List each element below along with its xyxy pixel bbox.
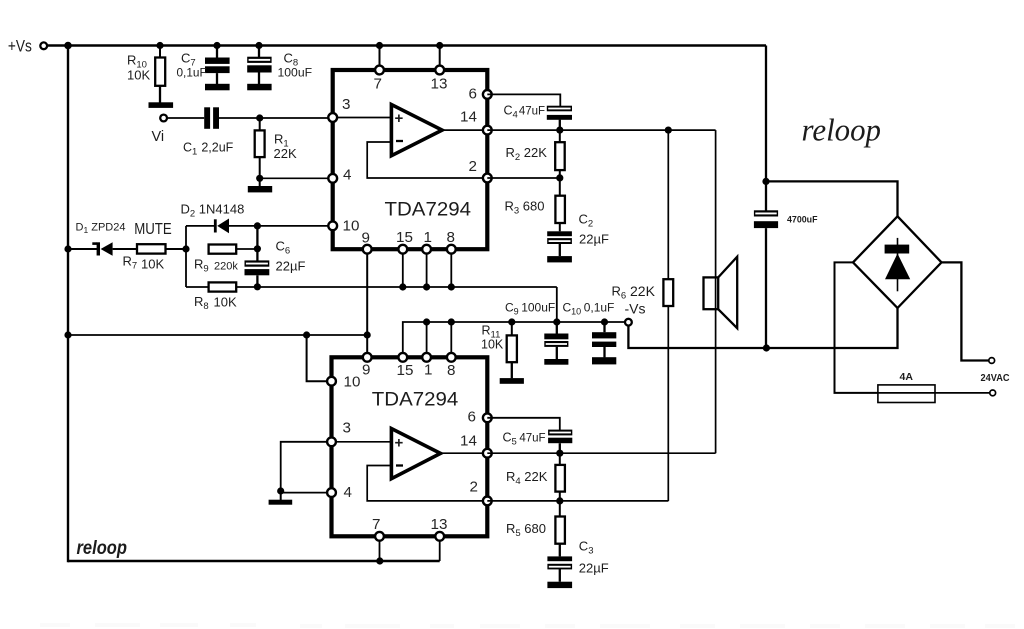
capacitor C4 — [547, 106, 572, 112]
svg-text:Vi: Vi — [152, 129, 165, 145]
op-amp U1 triangle — [391, 105, 442, 156]
svg-text:4A: 4A — [900, 371, 914, 383]
svg-text:-Vs: -Vs — [625, 301, 646, 317]
node junction R2/R3 — [556, 174, 563, 181]
svg-text:4: 4 — [343, 167, 351, 184]
node junction C4/R2 — [556, 127, 563, 134]
svg-text:15: 15 — [396, 229, 413, 246]
svg-text:6: 6 — [469, 86, 477, 103]
pin 2 — [483, 174, 492, 183]
svg-text:3: 3 — [342, 96, 350, 113]
speaker — [704, 277, 719, 309]
capacitor C8 — [255, 42, 262, 49]
capacitor C3 — [547, 556, 572, 561]
node junction pin7 bottom — [376, 557, 383, 564]
wire R8 to -Vs bus — [236, 286, 557, 288]
op-amp U2 triangle — [391, 429, 440, 479]
svg-text:15: 15 — [397, 362, 414, 379]
capacitor C5 — [548, 430, 572, 436]
wire vertical junction branch — [185, 226, 187, 287]
wire pin 14 U2 output line — [487, 452, 715, 454]
ground under C10 — [592, 357, 616, 364]
pin 15 U2 — [398, 353, 407, 362]
capacitor C7 — [213, 42, 220, 49]
svg-text:reloop: reloop — [802, 113, 882, 148]
node junction left rail / mute line — [64, 245, 71, 252]
wire pin 6 to C4 — [487, 94, 560, 106]
node junction ground pin3/4 U2 — [277, 487, 284, 494]
resistor R9 — [209, 245, 237, 254]
wire pin3 U2 to ground branch — [281, 442, 332, 491]
diode D2 1N4148 — [214, 219, 217, 232]
node junction pin1 lead — [423, 283, 430, 290]
svg-text:+: + — [395, 435, 404, 452]
wire R7 to junction — [166, 248, 187, 250]
terminal 24VAC upper — [989, 358, 995, 364]
wire to bridge top — [766, 181, 898, 216]
wire R9 to C6 junction — [236, 248, 257, 250]
ground under C7 — [205, 84, 230, 91]
node junction +Vs rail / left rail — [64, 42, 72, 50]
pin 6 — [483, 90, 492, 99]
node junction pin15 lead — [399, 283, 406, 290]
wire D1 to R7 — [113, 248, 137, 250]
diode D1 ZPD24 zener — [92, 242, 97, 245]
resistor R5 — [559, 501, 561, 517]
svg-text:TDA7294: TDA7294 — [385, 199, 472, 221]
svg-text:220k: 220k — [214, 261, 238, 273]
capacitor 4700uF — [754, 210, 778, 216]
node junction D2 / C6 top branch — [254, 222, 261, 229]
wire pin15 lead down — [402, 249, 404, 287]
pin 10 — [328, 221, 337, 230]
pin 13 U2 — [435, 532, 444, 541]
svg-text:22µF: 22µF — [276, 259, 306, 274]
svg-text:3: 3 — [343, 420, 351, 437]
wire bottom reloop line — [68, 560, 440, 562]
svg-text:D1 ZPD24: D1 ZPD24 — [76, 222, 126, 236]
wire bridge bottom to -Vs line — [628, 308, 897, 348]
wire pin1 lead up U2 — [426, 322, 428, 357]
wire pin 13 U2 lead down — [439, 536, 441, 561]
wire branch to pin 10 of U2 — [307, 335, 332, 381]
node junction R1 top — [256, 114, 263, 121]
svg-text:22µF: 22µF — [579, 561, 609, 576]
ground under pin4 branch — [280, 491, 282, 500]
node junction mute — [182, 245, 189, 252]
resistor R2 — [559, 130, 561, 142]
bridge diode — [897, 238, 899, 291]
node junction left rail / reloop line — [64, 331, 71, 338]
node junction R1 bottom — [256, 175, 263, 182]
pin 8 — [447, 245, 456, 254]
resistor R8 — [209, 282, 237, 291]
svg-text:10K: 10K — [141, 257, 164, 272]
svg-text:10K: 10K — [481, 338, 504, 352]
terminal +Vs — [40, 42, 47, 49]
svg-text:2: 2 — [469, 158, 477, 175]
pin 3 — [328, 113, 337, 122]
wire pin3 to op-amp input — [333, 117, 392, 119]
wire junction to pin 4 U2 — [281, 491, 332, 493]
pin 1 U2 — [422, 353, 431, 362]
wire -Vs bus line — [403, 322, 625, 357]
svg-text:4700uF: 4700uF — [787, 215, 818, 225]
pin 14 U2 — [483, 449, 492, 458]
wire R8 line left — [186, 286, 209, 288]
svg-text:9: 9 — [362, 230, 370, 247]
pin 15 — [398, 245, 407, 254]
svg-text:10: 10 — [344, 374, 361, 391]
ground under C9 — [544, 359, 568, 365]
svg-text:9: 9 — [362, 362, 370, 379]
pin 3 U2 — [327, 437, 336, 446]
wire pin3 to op-amp input U2 — [332, 441, 392, 443]
wire pin 2 line — [487, 177, 560, 179]
svg-text:22K: 22K — [630, 283, 656, 299]
wire pin9 vertical IC1 to IC2 — [366, 249, 368, 357]
svg-text:1: 1 — [424, 229, 432, 246]
wire feedback to pin 2 U2 — [367, 466, 487, 501]
pin 10 U2 — [327, 377, 336, 386]
resistor R3 — [559, 178, 561, 196]
wire D2 line — [186, 225, 215, 227]
pin 7 — [375, 66, 384, 75]
pin 14 — [483, 126, 492, 135]
svg-text:7: 7 — [372, 516, 380, 533]
svg-text:10K: 10K — [214, 295, 237, 310]
svg-text:14: 14 — [460, 109, 477, 126]
wire bridge left to fuse — [835, 262, 878, 393]
svg-text:2: 2 — [470, 479, 478, 496]
node junction C6 bottom — [254, 283, 261, 290]
svg-text:MUTE: MUTE — [134, 221, 172, 238]
wire pin8 lead up U2 — [450, 322, 452, 357]
svg-text:TDA7294: TDA7294 — [372, 389, 459, 411]
fuse 4A — [878, 385, 935, 403]
svg-text:+: + — [395, 110, 404, 127]
capacitor C2 — [547, 231, 572, 236]
terminal Vi — [160, 115, 167, 122]
ground under C8 — [247, 84, 271, 91]
ground under R11 — [500, 378, 524, 384]
resistor R11 — [508, 318, 515, 325]
node junction reloop / pin10 branch — [303, 331, 310, 338]
pin 6 U2 — [483, 413, 492, 422]
wire bridge right to terminal — [942, 262, 989, 360]
node junction C6 top — [254, 245, 261, 252]
wire pin 13 lead — [439, 46, 441, 71]
resistor R1 — [259, 118, 261, 130]
wire pin 7 U2 lead down — [379, 536, 381, 561]
wire left rail — [67, 44, 69, 562]
svg-text:22µF: 22µF — [579, 232, 609, 247]
resistor R10 — [159, 46, 161, 59]
node junction R4/R5 — [556, 497, 563, 504]
node junction pin8 lead — [448, 283, 455, 290]
pin 1 — [422, 245, 431, 254]
op-amp U1 box TDA7294 — [333, 70, 488, 249]
svg-text:0,1uF: 0,1uF — [177, 66, 207, 80]
pin 7 U2 — [375, 532, 384, 541]
wire mute line — [68, 248, 98, 250]
ground under C2 — [547, 256, 572, 262]
wire pin 6 U2 to C5 — [487, 418, 560, 430]
svg-text:10K: 10K — [127, 68, 150, 83]
svg-text:+Vs: +Vs — [8, 38, 32, 56]
terminal 24VAC lower — [990, 390, 996, 396]
svg-text:8: 8 — [447, 362, 455, 379]
bridge rectifier — [853, 216, 942, 308]
svg-text:1: 1 — [424, 362, 432, 379]
wire D2 to junction — [229, 225, 333, 227]
wire top +Vs rail — [44, 44, 766, 46]
svg-text:100uF: 100uF — [278, 66, 313, 80]
wire feedback to pin 2 — [367, 142, 487, 178]
pin 4 — [328, 174, 337, 183]
capacitor C1 — [204, 107, 210, 129]
wire C1 to pin 3 — [219, 117, 333, 119]
terminal -Vs — [625, 319, 632, 326]
wire R1 to pin 4 — [260, 177, 333, 179]
svg-text:C100,1uF: C100,1uF — [563, 301, 615, 317]
wire pin8 lead down — [450, 249, 452, 287]
capacitor C9 — [553, 318, 560, 325]
node junction R6 top — [665, 127, 672, 134]
svg-text:14: 14 — [460, 433, 477, 450]
pin 8 U2 — [447, 353, 456, 362]
wire fuse line — [878, 392, 990, 394]
wire bus corner down — [556, 287, 558, 322]
wire pin 7 lead — [379, 46, 381, 71]
ground under C3 — [547, 582, 572, 588]
wire Vi to C1 — [167, 117, 204, 119]
resistor R7 — [137, 244, 166, 253]
capacitor C6 — [256, 226, 258, 261]
pin 9 U2 — [363, 353, 372, 362]
svg-text:reloop: reloop — [77, 538, 128, 559]
pin 4 U2 — [327, 488, 336, 497]
node junction 4700uF top — [762, 178, 769, 185]
svg-text:8: 8 — [447, 229, 455, 246]
node junction 4700uF bottom — [763, 344, 770, 351]
svg-text:6: 6 — [468, 409, 476, 426]
svg-text:4: 4 — [344, 484, 352, 501]
svg-text:24VAC: 24VAC — [981, 373, 1011, 384]
pin 9 — [363, 245, 372, 254]
wire +Vs rail corner down right — [765, 46, 767, 211]
pin 13 — [435, 66, 444, 75]
resistor R4 — [559, 453, 561, 465]
wire op-amp output to pin 14 U2 — [441, 452, 488, 454]
op-amp U2 box TDA7294 — [332, 357, 488, 536]
wire pin1 lead down — [426, 249, 428, 287]
node junction C5/R4 — [556, 450, 563, 457]
svg-text:C9100uF: C9100uF — [505, 301, 555, 317]
capacitor C10 — [601, 318, 608, 325]
resistor R6 — [667, 130, 669, 279]
wire speaker top lead — [715, 130, 717, 277]
bottom faint artifacts — [40, 623, 1015, 628]
node junction reloop / pin9 — [364, 331, 371, 338]
wire pin 2 U2 line to R6 — [487, 500, 668, 502]
svg-text:13: 13 — [431, 76, 448, 93]
svg-text:22K: 22K — [274, 146, 297, 161]
wire reloop line — [68, 334, 367, 336]
pin 2 U2 — [483, 497, 492, 506]
svg-text:10: 10 — [343, 218, 360, 235]
ground under R1 — [248, 186, 272, 192]
ground under R10 — [149, 102, 174, 108]
svg-text:7: 7 — [374, 76, 382, 93]
wire speaker bottom lead — [715, 277, 717, 453]
svg-text:13: 13 — [431, 516, 448, 533]
wire pin 14 output line — [487, 129, 715, 131]
wire op-amp output to pin 14 — [442, 129, 487, 131]
